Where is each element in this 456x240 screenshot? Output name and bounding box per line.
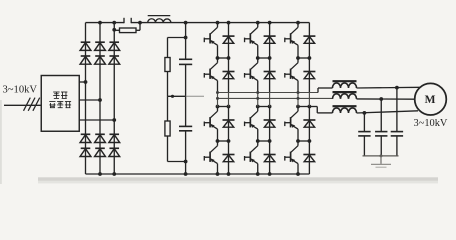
svg-text:3~10kV: 3~10kV [414, 118, 448, 129]
svg-text:3~10kV: 3~10kV [3, 85, 38, 96]
svg-text:M: M [425, 94, 436, 106]
